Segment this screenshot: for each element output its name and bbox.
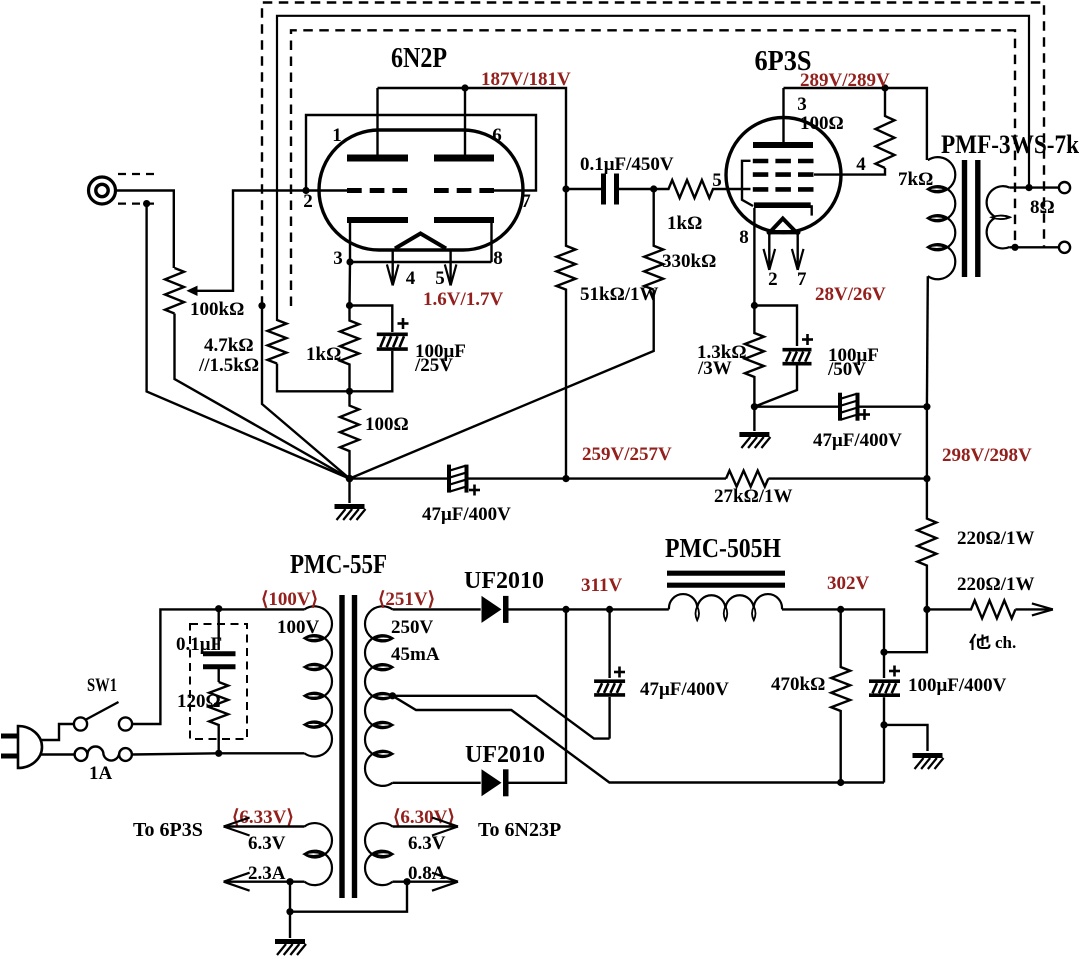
svg-text:To 6P3S: To 6P3S bbox=[133, 819, 203, 841]
switch SW1 contact A bbox=[74, 717, 87, 730]
wire: pot wiper to 6N2P grids (pins 2,7) bbox=[197, 191, 348, 291]
ground symbol (PS) bbox=[913, 756, 944, 770]
svg-text:298V/298V: 298V/298V bbox=[942, 445, 1032, 466]
node: primary top / snubber bbox=[215, 605, 222, 612]
svg-text:8Ω: 8Ω bbox=[1030, 197, 1055, 218]
svg-text:3: 3 bbox=[333, 248, 343, 269]
AC plug prongs bbox=[1, 736, 17, 756]
plus mark 47uF decoupling bbox=[469, 485, 480, 496]
U2 beam plate dashes bbox=[753, 159, 814, 164]
U2 plate bar (pin 3) bbox=[753, 142, 813, 148]
node: 100uF top junction bbox=[880, 649, 887, 656]
svg-text:100μF/400V: 100μF/400V bbox=[908, 675, 1007, 696]
svg-text:100V: 100V bbox=[277, 617, 320, 638]
wire: U1 cathode pin8 lead bbox=[490, 223, 492, 262]
svg-text:2: 2 bbox=[768, 269, 778, 290]
wire: U1 plate line 187V to coupling node bbox=[378, 88, 567, 189]
wire: U2 cathode ground drop bbox=[753, 407, 755, 431]
svg-text:5: 5 bbox=[435, 268, 445, 289]
T1 heater winding 6.3V 0.8A bbox=[365, 823, 392, 885]
wire: heater R bottom lead bbox=[393, 881, 459, 883]
node: ground rail / 470k bbox=[837, 779, 844, 786]
wire: jack hot to volume pot top bbox=[116, 191, 174, 269]
wire: heater L top lead bbox=[224, 825, 305, 827]
wire: T2 secondary bottom lead bbox=[1010, 246, 1059, 248]
U1 heater pin5 arrow bbox=[445, 264, 457, 285]
node: star ground point bbox=[346, 475, 354, 483]
svg-text:220Ω/1W: 220Ω/1W bbox=[957, 574, 1035, 595]
node: U2 cathode RC top bbox=[751, 302, 758, 309]
label 他 ch. (other channel) bbox=[970, 634, 990, 650]
wire: U1 cathode down to RC bbox=[348, 262, 351, 306]
node: jack shield ground junction bbox=[143, 200, 150, 207]
svg-text:220Ω/1W: 220Ω/1W bbox=[957, 528, 1035, 549]
wire: U1 cathode pin3 lead bbox=[349, 223, 351, 262]
svg-text:47μF/400V: 47μF/400V bbox=[813, 430, 902, 451]
U2 control grid dashes (pin 5) bbox=[753, 187, 814, 192]
plus mark 100uF/400V bbox=[889, 666, 900, 677]
wire: jack shield dashed bottom bbox=[118, 203, 157, 205]
wire: 100uF bottom to rail bbox=[883, 725, 885, 783]
arrow: heater R top bbox=[432, 818, 458, 836]
T2 secondary winding 8Ω bbox=[987, 186, 1010, 248]
wire: inner feedback loop (dashed) bbox=[291, 30, 1015, 306]
svg-text:⟨6.30V⟩: ⟨6.30V⟩ bbox=[393, 807, 455, 828]
node: 302V / 470k top bbox=[837, 606, 844, 613]
svg-text:250V: 250V bbox=[391, 617, 434, 638]
wire: plug to fuse bbox=[41, 753, 75, 755]
svg-text:259V/257V: 259V/257V bbox=[582, 444, 672, 465]
wire: U1 heater pin4 lead bbox=[392, 249, 394, 286]
resistor 51kΩ/1W (U1 plate load) bbox=[557, 189, 576, 479]
svg-text:3: 3 bbox=[797, 94, 807, 115]
svg-text:1A: 1A bbox=[89, 763, 113, 784]
U1 plate bars (pins 1,6) bbox=[347, 155, 494, 162]
wire: U1 plate pin1 riser bbox=[376, 88, 378, 155]
T1 HV secondary 250V winding bbox=[365, 606, 393, 786]
diode D1 UF2010 bbox=[482, 596, 502, 623]
svg-text:/25V: /25V bbox=[414, 355, 453, 376]
wire: jack shield down to star ground bbox=[147, 204, 350, 479]
fuse F1 1A bbox=[75, 747, 132, 761]
plus mark 100uF/50V bbox=[802, 334, 813, 345]
wire: HV top to D1 bbox=[393, 608, 481, 610]
tube U1 6N2P envelope bbox=[319, 130, 523, 250]
wire: 100uF/50V branch bbox=[754, 306, 797, 347]
node: 311V / D2 join bbox=[562, 606, 569, 613]
wire: 47uF PS top lead bbox=[608, 609, 610, 678]
node: 47uF/298V junction bbox=[923, 403, 930, 410]
wire: 27k to 298V node bbox=[768, 477, 927, 479]
wire: 100uF/50V bottom to cathode ground bbox=[754, 366, 797, 407]
wire: center tap to ground rail bbox=[393, 696, 885, 783]
svg-text:1.6V/1.7V: 1.6V/1.7V bbox=[423, 289, 504, 310]
resistor 470kΩ (bleeder) bbox=[831, 609, 850, 782]
wire: T2 secondary top lead bbox=[1010, 186, 1059, 188]
svg-text:289V/289V: 289V/289V bbox=[800, 70, 890, 91]
svg-text:1: 1 bbox=[332, 125, 342, 146]
wire: U1 cathode tie line bbox=[350, 261, 492, 263]
wire: heater L bottom lead bbox=[224, 881, 305, 883]
output terminal (-) bbox=[1059, 242, 1070, 253]
U1 heater filament symbol bbox=[395, 234, 446, 249]
svg-text://1.5kΩ: //1.5kΩ bbox=[198, 355, 259, 376]
wire: 100uF bottom to ground bbox=[884, 725, 928, 751]
node: feedback dashed junction bbox=[258, 302, 265, 309]
svg-text:45mA: 45mA bbox=[391, 644, 440, 665]
wire: 47uF PS bottom lead bbox=[608, 697, 610, 739]
svg-text:6P3S: 6P3S bbox=[755, 46, 812, 77]
tube U2 6P3S envelope bbox=[726, 118, 841, 233]
capacitor 0.1μF/450V (coupling) bbox=[604, 174, 617, 205]
svg-text:⟨6.33V⟩: ⟨6.33V⟩ bbox=[232, 807, 294, 828]
svg-text:⟨100V⟩: ⟨100V⟩ bbox=[261, 589, 318, 610]
arrow: heater L bottom bbox=[224, 873, 250, 891]
capacitor 47μF/400V (first stage decoupling) bbox=[449, 465, 467, 493]
U2 screen grid dashes (pin 4) bbox=[753, 172, 814, 177]
svg-text:100Ω: 100Ω bbox=[800, 113, 844, 134]
plus mark 47uF PS bbox=[614, 667, 625, 678]
svg-text:100kΩ: 100kΩ bbox=[190, 299, 244, 320]
U1 cathode bars (pins 3,8) bbox=[347, 217, 494, 223]
input jack J1 bbox=[89, 177, 116, 204]
node: U2 heater chord right bbox=[795, 229, 801, 235]
switch SW1 lever bbox=[86, 702, 119, 720]
wire: choke out 302V bbox=[782, 609, 884, 652]
node: secondary top / feedback tap bbox=[1025, 184, 1032, 191]
wire: T2 primary bottom to 298V rail bbox=[926, 276, 929, 406]
wire: D2 out up to 311V bbox=[508, 609, 566, 782]
wire: pot bottom to star ground bbox=[175, 314, 350, 479]
U2 cathode bar (pin 8) bbox=[754, 202, 811, 208]
node: heater ground junction bbox=[286, 908, 293, 915]
wire: 289V line to OPT primary bbox=[784, 88, 927, 160]
svg-text:2: 2 bbox=[303, 191, 313, 212]
resistor 1kΩ (grid stopper) bbox=[654, 180, 751, 198]
svg-text:8: 8 bbox=[739, 227, 749, 248]
wire: jack shield dashed top bbox=[118, 173, 157, 175]
node: U1 plate / coupling junction bbox=[562, 185, 569, 192]
wire: heater ground bus bbox=[290, 882, 407, 912]
T2 core bbox=[965, 160, 978, 277]
capacitor 47μF/400V (output stage) bbox=[840, 393, 858, 421]
wire: 298V rail vertical bbox=[926, 407, 928, 479]
wire: 47uF to 259V rail bbox=[469, 477, 727, 479]
wire: snubber top lead bbox=[217, 609, 219, 650]
T1 primary 100V winding bbox=[305, 606, 332, 756]
pot wiper arrow bbox=[186, 286, 197, 296]
ground symbol (U2 cathode) bbox=[739, 435, 770, 449]
svg-text:6.3V: 6.3V bbox=[248, 833, 286, 854]
resistor 100Ω (screen stopper) bbox=[876, 88, 895, 168]
arrow: other channel feed bbox=[1032, 603, 1053, 615]
node: B+ to other channel bbox=[923, 606, 930, 613]
arrow: heater L top bbox=[224, 818, 250, 836]
svg-text:311V: 311V bbox=[581, 575, 622, 596]
wire: cathode ground to 47uF bbox=[754, 406, 838, 408]
U2 heater pin7 arrow bbox=[792, 249, 804, 270]
T2 primary winding 7kΩ bbox=[928, 157, 955, 279]
capacitor 0.1μF (snubber) bbox=[203, 654, 236, 667]
svg-text:6N2P: 6N2P bbox=[391, 43, 447, 74]
capacitor 100μF/25V bbox=[377, 334, 408, 349]
svg-text:4: 4 bbox=[406, 268, 416, 289]
svg-text:4: 4 bbox=[856, 154, 866, 175]
wire: heater ground drop bbox=[289, 912, 291, 938]
svg-text:PMF-3WS-7k: PMF-3WS-7k bbox=[941, 130, 1079, 159]
U1 heater pin4 arrow bbox=[387, 264, 399, 285]
node: 289V / 100R junction bbox=[881, 84, 888, 91]
arrow: heater R bottom bbox=[432, 873, 458, 891]
svg-text:0.1μF/450V: 0.1μF/450V bbox=[580, 154, 674, 175]
wire: screen resistor to pin 4 bbox=[814, 168, 885, 175]
svg-text:/3W: /3W bbox=[697, 358, 732, 379]
wire: U1 grid loop pins2-7 tie bbox=[306, 115, 536, 191]
node: 6P3S grid node bbox=[650, 185, 657, 192]
node: 298V rail junction bbox=[923, 475, 930, 482]
switch SW1 contact B bbox=[119, 717, 132, 730]
wire: 100uF bottom lead bbox=[883, 697, 885, 725]
wire: outer feedback loop (dashed) from 4.7k node to OPT secondary bbox=[262, 3, 1044, 306]
svg-text:PMC-55F: PMC-55F bbox=[290, 549, 387, 579]
svg-text:4.7kΩ: 4.7kΩ bbox=[204, 335, 254, 356]
wire: HV bottom to D2 bbox=[393, 782, 481, 784]
wire: snubber mid lead bbox=[217, 669, 219, 682]
snubber dashed box bbox=[190, 624, 247, 739]
svg-text:47μF/400V: 47μF/400V bbox=[640, 679, 729, 700]
wire: 47uF to 298V bbox=[860, 406, 927, 408]
wire: coupling node to 0.1uF bbox=[566, 188, 601, 190]
resistor 27kΩ/1W (decoupling) bbox=[726, 471, 768, 487]
wire: 0.1uF to 330k node bbox=[619, 188, 654, 190]
wire: 302V feed from dropper bbox=[884, 609, 927, 652]
wire: 100uF top lead bbox=[883, 652, 885, 678]
svg-text:6: 6 bbox=[492, 125, 502, 146]
U2 heater filament symbol bbox=[771, 219, 795, 232]
svg-text:SW1: SW1 bbox=[87, 675, 117, 696]
wire: fuse to T1 primary bottom bbox=[132, 753, 305, 754]
node: heater R bottom tap bbox=[403, 878, 410, 885]
svg-text:5: 5 bbox=[712, 170, 722, 191]
choke L1 winding bbox=[669, 594, 782, 609]
wire: U2 cathode pin8 down bbox=[753, 208, 755, 306]
potentiometer 100kΩ (volume) bbox=[165, 268, 184, 314]
wire: U2 heater pin2 lead bbox=[768, 234, 770, 270]
AC plug bbox=[18, 726, 42, 768]
capacitor 100μF/400V (PS output) bbox=[869, 681, 900, 695]
output terminal (+) bbox=[1059, 182, 1070, 193]
wire: star to 47uF (B rail) bbox=[350, 477, 448, 479]
wire: center tap to 47uF bottom bbox=[393, 696, 610, 739]
L1 core bars bbox=[667, 573, 785, 585]
node: U1 cathode bottom junction bbox=[346, 388, 353, 395]
wire: 4.7k bottom to cathode node bbox=[277, 364, 350, 392]
resistor 100Ω (feedback leg) bbox=[340, 391, 359, 478]
node: HV center tap bbox=[389, 692, 396, 699]
resistor 4.7kΩ//1.5kΩ (feedback) bbox=[268, 320, 287, 364]
ground symbol (star) bbox=[335, 507, 366, 521]
capacitor 47μF/400V (PS first filter) bbox=[594, 681, 625, 695]
wire: U1 plate pin6 riser bbox=[464, 88, 466, 155]
node: plates junction bbox=[461, 84, 468, 91]
svg-text:ch.: ch. bbox=[995, 633, 1016, 652]
wire: U1 heater pin5 lead bbox=[449, 249, 451, 286]
node: 259V rail / 51k junction bbox=[562, 475, 569, 482]
svg-text:7: 7 bbox=[521, 191, 531, 212]
svg-text:0.1μF: 0.1μF bbox=[176, 634, 222, 655]
resistor 1.3kΩ/3W (U2 cathode) bbox=[745, 306, 764, 407]
node: grid pin2 junction bbox=[302, 187, 309, 194]
wire: heater R top lead bbox=[393, 825, 459, 827]
svg-text:187V/181V: 187V/181V bbox=[481, 69, 571, 90]
plus mark 100uF/25V bbox=[398, 318, 409, 329]
svg-text:To 6N23P: To 6N23P bbox=[478, 819, 561, 841]
node: 100uF bottom junction bbox=[880, 721, 887, 728]
wire: D1 out 311V line bbox=[508, 608, 669, 610]
svg-text:1kΩ: 1kΩ bbox=[306, 344, 341, 365]
resistor 120Ω (snubber) bbox=[209, 682, 228, 753]
wire: 330k bottom to star ground bbox=[350, 290, 654, 479]
wire: U2 beam plates tie to cathode bbox=[742, 161, 753, 206]
svg-text:6.3V: 6.3V bbox=[408, 833, 446, 854]
wire: switch to T1 primary top bbox=[132, 609, 305, 724]
svg-text:47μF/400V: 47μF/400V bbox=[422, 504, 511, 525]
node: primary bottom / snubber bbox=[215, 750, 222, 757]
svg-text:1kΩ: 1kΩ bbox=[667, 213, 702, 234]
wire: dashed node down to star ground bbox=[262, 306, 350, 479]
svg-text:UF2010: UF2010 bbox=[465, 742, 545, 768]
wire: U2 plate lead to 289V line bbox=[782, 88, 784, 142]
wire: U2 heater pin7 lead bbox=[797, 234, 799, 270]
capacitor 100μF/50V bbox=[783, 350, 812, 364]
svg-text:100Ω: 100Ω bbox=[365, 414, 409, 435]
node: cathode pin3 junction bbox=[346, 258, 353, 265]
svg-text:7: 7 bbox=[797, 269, 807, 290]
node: U2 cathode ground bbox=[751, 403, 758, 410]
svg-text:8: 8 bbox=[493, 248, 503, 269]
svg-text:330kΩ: 330kΩ bbox=[662, 251, 716, 272]
wire: 100uF/25V cap branch bbox=[350, 306, 393, 333]
svg-text:⟨251V⟩: ⟨251V⟩ bbox=[378, 589, 435, 610]
wire: plug to switch bbox=[41, 724, 75, 740]
resistor 1kΩ (U1 cathode) bbox=[340, 306, 359, 392]
node: heater L bottom tap bbox=[286, 878, 293, 885]
svg-text:120Ω: 120Ω bbox=[177, 691, 221, 712]
wire: U2 cathode bar tail bbox=[811, 205, 813, 215]
svg-text:28V/26V: 28V/26V bbox=[815, 284, 886, 305]
resistor 220Ω/1W (other ch feed) bbox=[927, 600, 1016, 618]
svg-text:UF2010: UF2010 bbox=[464, 568, 544, 594]
diode D2 UF2010 bbox=[482, 769, 502, 796]
wire: feedback line (solid) top rail to OPT secondary top bbox=[277, 16, 1029, 321]
wire: cap bottom to cathode node bbox=[350, 351, 393, 391]
svg-text:PMC-505H: PMC-505H bbox=[665, 533, 781, 563]
svg-text:/50V: /50V bbox=[827, 359, 866, 380]
wire: star ground drop bbox=[348, 479, 350, 503]
U1 grid dashes (pins 2,7) bbox=[347, 188, 494, 193]
node: secondary bottom / feedback tap bbox=[1011, 244, 1018, 251]
node: U2 heater chord left bbox=[767, 229, 773, 235]
wire: to other channel bbox=[1015, 608, 1053, 610]
node: U1 cathode RC top bbox=[346, 302, 353, 309]
T1 heater winding 6.3V 2.3A bbox=[305, 823, 332, 885]
U2 heater pin2 arrow bbox=[764, 249, 776, 270]
svg-text:27kΩ/1W: 27kΩ/1W bbox=[714, 486, 793, 507]
U2 heater chord bbox=[769, 230, 798, 234]
svg-text:7kΩ: 7kΩ bbox=[898, 169, 933, 190]
ground symbol (heater) bbox=[275, 942, 306, 956]
node: 311V / 47uF bbox=[606, 606, 613, 613]
svg-text:302V: 302V bbox=[827, 573, 870, 594]
svg-text:470kΩ: 470kΩ bbox=[771, 674, 825, 695]
resistor 220Ω/1W (B+ dropper) bbox=[917, 479, 936, 610]
plus mark 47uF output bbox=[859, 409, 870, 420]
T1 core bbox=[342, 595, 355, 898]
resistor 330kΩ (grid leak) bbox=[644, 189, 663, 290]
